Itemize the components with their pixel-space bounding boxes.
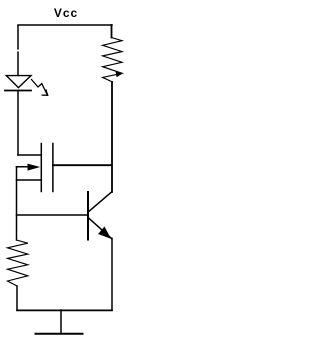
LED D1 cathode bar [5, 90, 31, 92]
wire: bottom rail [17, 309, 112, 311]
wire: left vertical (bulk/source node down to R2 and base wire) [16, 167, 18, 240]
resistor R1 zigzag [103, 38, 122, 83]
ground stem [60, 310, 62, 333]
wire: Vcc rail top horizontal [18, 24, 112, 26]
MOSFET Q1 gate bar (right) [52, 144, 54, 192]
MOSFET Q1 bulk arrowhead [28, 164, 41, 171]
resistor R1 top lead [111, 25, 113, 38]
wire: drain horizontal into MOSFET channel bar [18, 154, 41, 156]
wire: gate line to right vertical [53, 164, 112, 166]
LED D1 triangle (anode) [6, 76, 31, 88]
wire: emitter down to bottom rail [111, 238, 113, 310]
ground bar [36, 333, 83, 335]
transistor Q2 emitter diagonal [89, 218, 112, 238]
wire: LED cathode down to MOSFET drain corner [17, 91, 19, 155]
LED D1 light-emission squiggle arrow [32, 80, 48, 96]
wire [17, 51, 19, 75]
wire: left branch from Vcc rail down to LED anode (small break at y=50) [17, 25, 19, 50]
net label Vcc [52, 6, 80, 20]
transistor Q2 emitter arrowhead [98, 227, 111, 239]
transistor Q2 base bar [87, 192, 89, 240]
wire: base wire from left vertical to BJT base [17, 214, 88, 216]
wire: R1 bottom lead down to collector corner (gate junction at y=165) [111, 82, 113, 192]
transistor Q2 collector diagonal [89, 192, 112, 212]
MOSFET Q1 source wire [17, 179, 42, 181]
MOSFET Q1 bulk arrow wire [17, 166, 35, 168]
MOSFET Q1 channel bar (left) [40, 144, 42, 192]
resistor R2 zigzag [8, 240, 28, 286]
resistor R1 wiper arrowhead [116, 72, 123, 78]
wire: R2 bottom lead to bottom rail [16, 286, 18, 310]
